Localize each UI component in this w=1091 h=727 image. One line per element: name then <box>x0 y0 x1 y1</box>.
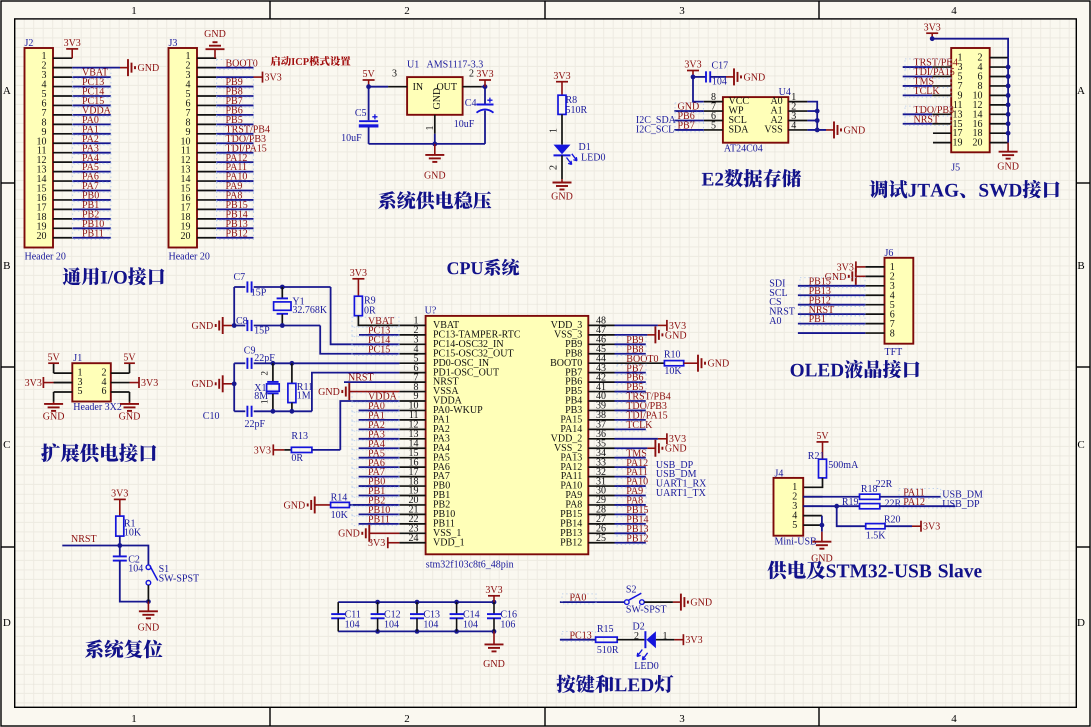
svg-text:3V3: 3V3 <box>265 73 282 84</box>
wire J3 pin 6 <box>216 104 253 106</box>
svg-text:R14: R14 <box>331 493 348 504</box>
wire U7 right row TRST/PB4 <box>615 400 646 402</box>
capacitor C7 15P <box>234 281 251 292</box>
text SDI <box>769 278 785 289</box>
net label PB13 <box>217 219 254 230</box>
svg-text:GND: GND <box>424 170 446 181</box>
wire U1 out to 3V3 <box>482 84 488 89</box>
wire J1 pin 5 to GND <box>53 392 55 402</box>
svg-text:B: B <box>3 260 10 272</box>
wire U7 right row TDI/PA15 <box>615 419 646 421</box>
net label TMS <box>905 77 951 88</box>
svg-text:VSS: VSS <box>764 125 782 136</box>
svg-text:104: 104 <box>128 564 143 575</box>
capacitor C8 15P <box>234 320 251 331</box>
svg-text:GND: GND <box>551 192 573 203</box>
power 3V3 at J1 pin 4 <box>130 377 159 389</box>
power 3V3 at D2 <box>674 634 702 646</box>
ground GND at R14 <box>284 496 331 513</box>
svg-text:IN: IN <box>413 82 424 93</box>
svg-text:Mini-USB: Mini-USB <box>775 537 818 548</box>
power 3V3 at VDD_1 <box>368 537 399 549</box>
wire U7 right row TMS <box>615 457 646 459</box>
wire J2 pin 4 <box>72 86 111 88</box>
wire OSC_IN net <box>254 361 400 366</box>
wire USB_DM to R18 <box>803 496 859 498</box>
net label PA5 <box>73 162 111 173</box>
wire J5 row 3 <box>903 76 933 78</box>
svg-text:R19: R19 <box>842 497 859 508</box>
net label TDO/PB3 <box>217 134 266 145</box>
wire C8 to PC15 corner <box>254 323 400 354</box>
wire U7 right row PB6 <box>615 381 646 383</box>
net label PB1 <box>73 200 111 211</box>
ground GND at decoupling rail <box>483 631 505 670</box>
wire R18 to PA11 <box>880 496 941 498</box>
title expansion power <box>41 443 156 462</box>
wire R15 to D2 <box>617 631 644 642</box>
wire U7 right row PA8 <box>615 504 646 506</box>
svg-text:GND: GND <box>844 125 866 136</box>
net label PC15 <box>73 96 111 107</box>
svg-text:GND: GND <box>318 387 340 398</box>
svg-text:5V: 5V <box>816 431 829 442</box>
net label TDI/PA15 <box>217 143 267 154</box>
svg-text:19: 19 <box>953 138 963 149</box>
wire J3 pin 11 <box>216 152 253 154</box>
svg-text:GND: GND <box>665 444 687 455</box>
ground GND below J5 <box>997 143 1019 173</box>
svg-text:D: D <box>3 617 11 629</box>
wire J2 pin 2 to GND <box>72 67 120 69</box>
wire PA3 <box>359 438 400 440</box>
text USB_DM <box>942 489 983 500</box>
wire PA6 <box>359 466 400 468</box>
net label PA0 <box>562 593 596 604</box>
net label PA9 <box>617 486 646 497</box>
svg-text:3V3: 3V3 <box>254 445 271 456</box>
wire J3 pin 7 <box>216 114 253 116</box>
power 3V3 at J2 pin 1 <box>64 38 81 58</box>
net label BOOT0 at U7 <box>617 354 659 365</box>
svg-text:VDD_1: VDD_1 <box>433 537 465 548</box>
svg-text:3: 3 <box>392 69 397 80</box>
wire J3 pin 1 to GND <box>197 57 215 59</box>
svg-text:10K: 10K <box>664 366 682 377</box>
net label TRST/PB4 <box>905 58 958 69</box>
power 5V at J1 pin 1 <box>47 352 60 373</box>
wire J2 pin 8 <box>72 123 111 125</box>
svg-text:104: 104 <box>345 620 360 631</box>
net label PA3 <box>73 143 111 154</box>
wire R8 to D1 <box>549 114 563 144</box>
net label PB14 <box>617 514 649 525</box>
title key and LED <box>557 675 674 693</box>
power 3V3 row 36 <box>658 433 686 445</box>
wire PB1 <box>359 495 400 497</box>
svg-text:1: 1 <box>131 5 137 17</box>
mcu U7 stm32f103c8t6 <box>399 306 614 571</box>
resistor R21 500mA <box>808 451 859 478</box>
wire J2 pin 16 <box>72 199 111 201</box>
wire J3 pin 2 BOOT0 <box>216 67 253 69</box>
power 3V3 at R20 <box>912 521 940 533</box>
net label PA3 <box>352 429 399 440</box>
svg-text:1.5K: 1.5K <box>866 531 887 542</box>
wire J2 pin 13 <box>72 171 111 173</box>
net label TRST/PB4 <box>217 124 270 135</box>
net label PB15 <box>800 276 865 287</box>
svg-text:SW-SPST: SW-SPST <box>626 605 667 616</box>
wire U4 address bus to GND <box>807 102 826 133</box>
wire J1 pin 6 to GND <box>129 392 131 402</box>
svg-text:5: 5 <box>78 386 83 397</box>
svg-text:UART1_TX: UART1_TX <box>656 488 707 499</box>
wire U7 right row PB9 <box>615 343 646 345</box>
net label PA0 <box>73 115 111 126</box>
wire J5 row 2 <box>903 66 933 68</box>
wire J6 pin 8 <box>798 332 865 334</box>
wire PA5 <box>359 457 400 459</box>
svg-text:SW-SPST: SW-SPST <box>159 574 200 585</box>
svg-text:I2C_SCL: I2C_SCL <box>636 125 674 136</box>
title OLED interface <box>791 360 920 378</box>
wire J3 pin 8 <box>216 123 253 125</box>
net label PB0 <box>352 477 399 488</box>
svg-text:2: 2 <box>260 371 270 376</box>
capacitor C9 22pF <box>234 358 251 369</box>
wire J2 pin 7 <box>72 114 111 116</box>
net label PA10 <box>617 477 648 488</box>
text I2C_SCL <box>636 125 674 136</box>
wire J3 pin 18 <box>216 218 253 220</box>
wire U7 right row PA12 <box>615 466 646 468</box>
wire J2 pin 9 <box>72 133 111 135</box>
svg-text:GND: GND <box>43 412 65 423</box>
net label PA1 <box>352 411 399 422</box>
wire 3V3 to J5 pin 2 <box>930 36 1008 57</box>
title power regulation <box>378 191 491 209</box>
ground GND at crystal X1 bus <box>192 375 235 392</box>
wire J3 pin 9 <box>216 133 253 135</box>
wire PB2 <box>349 504 399 506</box>
wire VDD row 48 <box>615 324 658 326</box>
capacitor C4 10uF <box>454 87 494 144</box>
power 3V3 at J1 pin 3 <box>25 377 73 389</box>
wire D1 to GND <box>549 155 563 179</box>
svg-text:3: 3 <box>679 5 685 17</box>
label C11 104 <box>338 610 361 632</box>
svg-text:10uF: 10uF <box>341 133 362 144</box>
wire D2 to 3V3 <box>656 631 675 642</box>
svg-text:1: 1 <box>131 713 137 725</box>
svg-text:NRST: NRST <box>71 534 97 545</box>
net label NRST at U7 <box>348 373 374 384</box>
net label PB9 <box>617 335 646 346</box>
wire U7 right row PB8 <box>615 353 646 355</box>
net label PA12 <box>217 153 254 164</box>
wire PB0 <box>359 485 400 487</box>
net label PC13 <box>352 325 399 336</box>
title General I/O <box>63 267 165 285</box>
net label PB7 <box>617 363 646 374</box>
net label VBAT <box>73 68 111 79</box>
net label PB1 <box>352 486 399 497</box>
svg-text:22pF: 22pF <box>245 419 266 430</box>
svg-text:10K: 10K <box>331 510 349 521</box>
wire J3 pin 19 <box>216 227 253 229</box>
net label PA12 <box>899 497 955 508</box>
svg-text:22R: 22R <box>876 479 893 490</box>
net label PB12 <box>217 228 254 239</box>
svg-text:3V3: 3V3 <box>923 522 940 533</box>
wire U4 pin 6 <box>674 120 704 122</box>
net label PB8 <box>217 87 254 98</box>
wire J5 row 4 <box>903 85 933 87</box>
net label PB8 <box>617 344 646 355</box>
power 3V3 above R9 <box>350 268 367 296</box>
wire PA2 <box>359 428 400 430</box>
svg-text:R20: R20 <box>884 514 901 525</box>
svg-text:1: 1 <box>663 631 668 642</box>
wire J2 pin 10 <box>72 142 111 144</box>
text UART1_RX <box>656 479 707 490</box>
svg-text:C: C <box>1077 439 1084 451</box>
crystal X1 8M <box>254 363 279 411</box>
wire reset node to S1 <box>120 546 149 565</box>
power 5V at U1 input <box>362 69 375 87</box>
ground GND at J2 pin 2 <box>120 59 159 76</box>
wire OSC_OUT net <box>254 373 400 414</box>
net label VDDA <box>73 106 112 117</box>
svg-text:3V3: 3V3 <box>64 38 81 49</box>
power 3V3 above R8 <box>553 71 570 95</box>
ground GND at C17 <box>726 68 765 85</box>
svg-text:5V: 5V <box>47 352 60 363</box>
svg-text:SDA: SDA <box>729 125 750 136</box>
wire U7 right row PB12 <box>615 542 646 544</box>
svg-text:A: A <box>1077 85 1085 97</box>
net label PA6 <box>73 172 111 183</box>
svg-text:C: C <box>3 439 10 451</box>
power 3V3 at R13 <box>254 444 285 456</box>
crystal Y1 32.768K <box>274 287 328 326</box>
net label PA4 <box>352 439 399 450</box>
ground GND above J3 pin 1 <box>204 29 226 58</box>
wire U4 pin 5 <box>674 129 704 131</box>
net label PB12 <box>800 295 865 306</box>
wire J5 ground bus <box>1006 58 1011 143</box>
power 3V3 at U1 output <box>476 69 493 87</box>
text USB_DP <box>656 460 694 471</box>
connector J4 Mini-USB <box>774 469 823 548</box>
svg-text:A0: A0 <box>769 316 781 327</box>
net label PB7 <box>675 121 704 132</box>
svg-text:PB12: PB12 <box>560 537 582 548</box>
ground GND at J6 pin 2 <box>825 268 866 285</box>
wire J2 pin 3 <box>72 76 111 78</box>
text USB_DP <box>942 499 980 510</box>
text UART1_TX <box>656 488 707 499</box>
LED D1 LED0 <box>554 142 606 165</box>
wire J3 pin 17 <box>216 208 253 210</box>
wire PA4 <box>359 447 400 449</box>
wire NRST to reset node <box>62 545 120 547</box>
svg-text:GND: GND <box>284 500 306 511</box>
wire J6 pin 3 <box>798 285 865 287</box>
svg-text:GND: GND <box>432 88 443 110</box>
wire J3 pin 12 <box>216 161 253 163</box>
net label PB2 <box>73 209 111 220</box>
svg-text:3V3: 3V3 <box>685 635 702 646</box>
svg-text:LED0: LED0 <box>581 153 605 164</box>
svg-text:4: 4 <box>951 5 957 17</box>
wire J2 pin 20 <box>72 237 111 239</box>
net label PB9 <box>217 77 254 88</box>
net label PB10 <box>73 219 111 230</box>
svg-text:PA12: PA12 <box>903 497 925 508</box>
svg-text:PB12: PB12 <box>226 228 248 239</box>
svg-text:510R: 510R <box>597 645 619 656</box>
wire J3 pin 10 <box>216 142 253 144</box>
wire J2 pin 14 <box>72 180 111 182</box>
LED D2 LED0 <box>633 622 659 673</box>
svg-text:GND: GND <box>811 554 833 565</box>
svg-text:R21: R21 <box>808 451 825 462</box>
wire J2 pin 6 <box>72 104 111 106</box>
net label PB6 <box>617 373 646 384</box>
capacitor C17 104 <box>706 61 728 88</box>
svg-text:104: 104 <box>712 77 727 88</box>
svg-text:Header 20: Header 20 <box>25 252 66 263</box>
wire NRST <box>344 381 399 383</box>
net label TCLK <box>905 86 951 97</box>
net label PA0 <box>352 401 399 412</box>
wire U7 right row PB15 <box>615 513 646 515</box>
resistor R20 1.5K <box>866 514 901 541</box>
wire PB10 <box>359 513 400 515</box>
net label PC14 <box>73 87 111 98</box>
net label TDO/PB3 <box>905 105 954 116</box>
svg-text:24: 24 <box>409 533 419 544</box>
net label TDI/PA15 <box>617 411 668 422</box>
svg-text:LED0: LED0 <box>634 661 658 672</box>
label C9 22pF <box>244 346 275 365</box>
svg-text:3V3: 3V3 <box>25 378 42 389</box>
resistor R19 22R <box>842 497 902 509</box>
wire J3 pin 4 <box>216 86 253 88</box>
wire decoupling rail 3V3 <box>338 600 496 605</box>
wire J3 pin 13 <box>216 171 253 173</box>
connector J6 TFT <box>865 248 913 358</box>
ground GND at U4 VSS <box>826 121 865 138</box>
net label TRST/PB4 <box>617 392 671 403</box>
capacitor C13 104 <box>410 602 424 618</box>
title system reset <box>85 640 163 659</box>
text SCL <box>769 288 787 299</box>
svg-text:10K: 10K <box>124 528 142 539</box>
wire J2 pin 15 <box>72 190 111 192</box>
wire PC13 <box>359 334 399 336</box>
svg-text:GND: GND <box>138 63 160 74</box>
capacitor C16 106 <box>487 602 501 618</box>
wire U7 right row TDO/PB3 <box>615 409 646 411</box>
net label PB13 <box>617 524 649 535</box>
svg-text:AT24C04: AT24C04 <box>724 144 763 155</box>
svg-text:AMS1117-3.3: AMS1117-3.3 <box>427 60 484 71</box>
wire J6 pin 6 <box>798 313 865 315</box>
net label PC14 <box>352 335 399 346</box>
svg-text:25: 25 <box>596 533 606 544</box>
svg-text:C8: C8 <box>236 316 248 327</box>
net label PC13 at R15 <box>562 630 596 641</box>
svg-text:GND: GND <box>483 659 505 670</box>
net label TMS <box>617 448 647 459</box>
wire J5 row 5 <box>903 94 933 96</box>
svg-text:3V3: 3V3 <box>141 378 158 389</box>
svg-text:C17: C17 <box>712 61 729 72</box>
capacitor C11 104 <box>331 602 345 618</box>
power 3V3 row 48 <box>658 320 686 332</box>
wire R9 to VBAT pin <box>358 316 399 326</box>
net label PB5 <box>617 382 646 393</box>
net label PA8 <box>217 191 254 202</box>
svg-text:GND: GND <box>690 598 712 609</box>
ground GND at R10 <box>690 355 729 372</box>
wire J3 pin 5 <box>216 95 253 97</box>
svg-text:6: 6 <box>102 386 107 397</box>
label C16 106 <box>494 610 517 632</box>
svg-text:GND: GND <box>997 162 1019 173</box>
ground GND below S1 <box>138 602 160 634</box>
power 3V3 above R1 <box>111 489 128 516</box>
svg-text:500mA: 500mA <box>828 460 859 471</box>
title CPU system <box>447 259 519 276</box>
svg-text:104: 104 <box>463 620 478 631</box>
label C7 15P <box>234 272 267 299</box>
text A0 <box>769 316 781 327</box>
net label PB6 <box>675 111 704 122</box>
net label PA9 <box>217 181 254 192</box>
title E2 data storage <box>702 169 801 188</box>
net label PA1 <box>73 124 111 135</box>
wire R1 to NRST node <box>117 536 122 548</box>
wire J6 pin 4 <box>798 294 865 296</box>
capacitor C14 104 <box>450 602 464 618</box>
wire J2 pin 12 <box>72 161 111 163</box>
svg-text:15P: 15P <box>251 288 267 299</box>
svg-text:8: 8 <box>890 328 895 339</box>
svg-text:U1: U1 <box>407 60 419 71</box>
net label PA11 <box>217 162 254 173</box>
net label PB7 <box>217 96 254 107</box>
net label PB11 <box>352 514 399 525</box>
svg-text:0R: 0R <box>364 306 376 317</box>
switch S2 SW-SPST <box>625 585 667 616</box>
resistor R11 1M <box>288 363 313 411</box>
wire J3 pin 3 <box>216 76 253 78</box>
label C14 104 <box>457 610 480 632</box>
svg-text:104: 104 <box>384 620 399 631</box>
wire J6 pin 5 <box>798 304 865 306</box>
svg-text:GND: GND <box>708 359 730 370</box>
wire J3 pin 15 <box>216 190 253 192</box>
wire BOOT0 to R10 <box>615 362 665 364</box>
ground GND below J4 <box>811 532 833 565</box>
svg-text:2: 2 <box>404 713 410 725</box>
wire VDD row 36 <box>615 438 658 440</box>
svg-text:15P: 15P <box>254 325 270 336</box>
